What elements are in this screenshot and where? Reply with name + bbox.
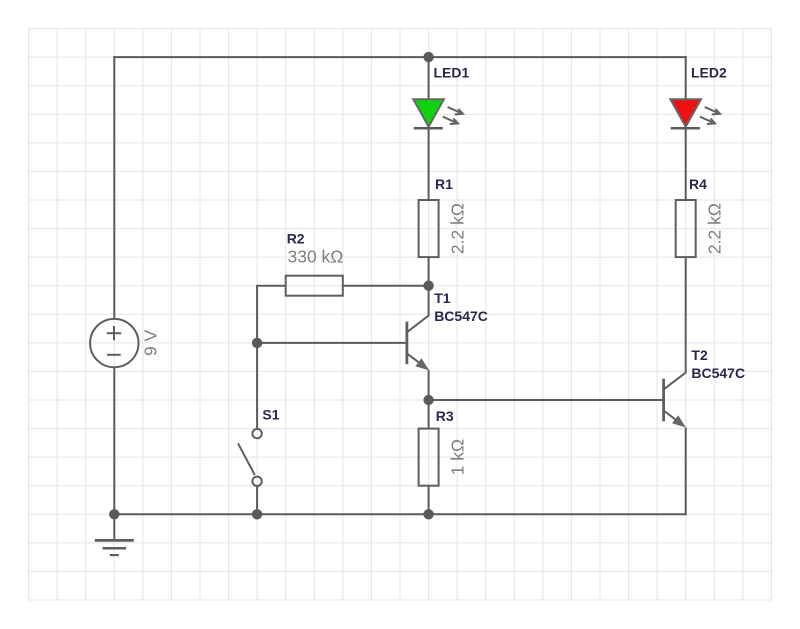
wire left rail upper [113, 56, 115, 319]
svg-text:LED1: LED1 [434, 65, 470, 81]
svg-text:LED2: LED2 [691, 65, 727, 81]
svg-text:330 kΩ: 330 kΩ [288, 247, 344, 267]
wire S1 lower lead [256, 486, 258, 514]
LED1 [413, 99, 463, 128]
svg-text:T2: T2 [691, 347, 708, 363]
wire bottom rail [114, 513, 686, 515]
wire S1 upper lead [256, 343, 258, 429]
node R3-bottom [423, 509, 433, 519]
battery V1 (voltage source) [90, 319, 138, 367]
resistor R1 [419, 200, 439, 257]
svg-text:S1: S1 [262, 406, 279, 422]
transistor T1 [407, 286, 429, 400]
switch S1 [238, 429, 262, 486]
svg-text:BC547C: BC547C [434, 308, 488, 324]
node R1-T1 collector [423, 281, 433, 291]
svg-text:T1: T1 [434, 290, 451, 306]
wire LED1 anode [428, 57, 430, 99]
wire left rail lower [113, 367, 115, 515]
wire LED2 cathode to R4 [685, 128, 687, 200]
svg-text:R1: R1 [435, 176, 453, 192]
svg-text:2.2 kΩ: 2.2 kΩ [447, 203, 467, 254]
ground [95, 540, 134, 555]
node base-R2-S1 [252, 338, 262, 348]
svg-text:R4: R4 [689, 176, 707, 192]
resistor R4 [676, 200, 696, 257]
resistor R2 [286, 276, 343, 296]
wire T2 emitter to bottom rail [685, 428, 687, 515]
wire R2 left lead and corner [257, 286, 286, 343]
wire LED2 anode [685, 56, 687, 99]
wire R2 right lead [343, 285, 429, 287]
wire R1 to node [428, 257, 430, 286]
node emitter-R3-T2base [423, 395, 433, 405]
node S1-bottom [252, 509, 262, 519]
svg-text:R2: R2 [287, 230, 305, 246]
wire LED1 cathode to R1 [428, 128, 430, 200]
wire R3 bottom lead [428, 486, 430, 515]
node ground-left [109, 509, 119, 519]
wire node to T2 base [429, 399, 664, 401]
svg-text:BC547C: BC547C [691, 365, 745, 381]
svg-text:9 V: 9 V [141, 329, 161, 356]
resistor R3 [419, 429, 439, 486]
wire ground stub [113, 514, 115, 540]
transistor T2 [664, 316, 686, 428]
wire R4 to T2 collector [685, 257, 687, 316]
svg-text:R3: R3 [436, 408, 454, 424]
wire T1 base [257, 342, 407, 344]
LED2 [670, 99, 720, 128]
svg-text:1 kΩ: 1 kΩ [447, 439, 467, 475]
wire R3 top lead [428, 400, 430, 429]
node top-LED1 [423, 52, 433, 62]
svg-text:2.2 kΩ: 2.2 kΩ [705, 203, 725, 254]
wire top rail [113, 56, 686, 58]
